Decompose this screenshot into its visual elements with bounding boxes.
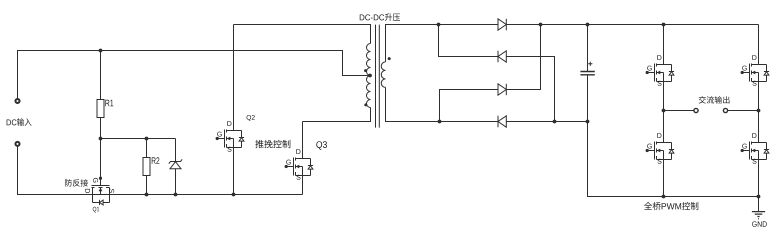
transistor bridge FET lower-right (741, 142, 770, 160)
node bridge left leg bottom junction (662, 195, 666, 199)
node bottom rail right corner (757, 195, 761, 199)
node Q2 source junction (232, 193, 236, 197)
wire bridge left leg lower source to rail (663, 160, 665, 197)
node AC1 / D1 anode junction (437, 23, 441, 27)
label R2 (152, 157, 156, 164)
label DC-DC升压 (360, 14, 365, 20)
node AC2 / secondary bottom junction (438, 120, 442, 124)
diode D4 (498, 116, 506, 127)
Q2 pin label D (227, 121, 231, 126)
ground lead (758, 197, 760, 212)
transistor bridge FET lower-left (646, 142, 675, 160)
wire AC2 up to D3 anode (440, 90, 499, 122)
label R1 (105, 100, 109, 107)
Q1 pin label G (93, 178, 98, 183)
label 防反接 (65, 179, 72, 186)
diode D1 (498, 19, 506, 30)
wire DC- down to bottom-right rail (588, 122, 759, 197)
wire bridge right leg lower drain (758, 111, 760, 143)
transformer T1 core (376, 25, 380, 128)
wire Q3 drain to primary bottom lead (303, 108, 371, 159)
wire DC- input lead and bottom-left rail (18, 146, 303, 194)
Q1 pin label D (85, 189, 90, 193)
bridge FET upper-right pin label D (752, 55, 756, 60)
resistor R1 (100, 51, 102, 100)
terminal DC input positive (15, 99, 19, 103)
Q3 pin label D (296, 149, 300, 154)
bridge FET lower-right pin label D (752, 133, 756, 138)
transformer polarity dot lower primary (364, 103, 367, 106)
transformer T1 primary winding (367, 44, 371, 108)
capacitor C1 plus sign (588, 62, 592, 66)
node AC output right junction (757, 109, 761, 113)
bridge FET lower-left pin label D (657, 133, 661, 138)
label Q2 (247, 115, 252, 121)
transformer polarity dot secondary (388, 57, 391, 60)
wire Q1 gate lead (100, 139, 102, 186)
terminal AC output left (694, 108, 698, 112)
wire top rail primary side and primary top lead (234, 25, 371, 44)
node capacitor top junction (586, 23, 590, 27)
Q3 pin label G (286, 160, 291, 165)
transformer T1 secondary winding (381, 62, 385, 88)
wire bridge right leg upper drain (758, 25, 760, 65)
terminal DC input negative (15, 142, 19, 146)
label 全桥PWM控制 (644, 202, 652, 210)
resistor R2 (146, 139, 148, 158)
wire secondary bottom lead to D4 cathode (386, 87, 499, 121)
transistor Q1 reverse-polarity protection (92, 177, 110, 206)
wire D3 cathode up to DC+ rail (506, 25, 540, 90)
bridge FET upper-left pin label S (657, 81, 661, 86)
node R2 top junction (145, 137, 149, 141)
label Q1 (93, 207, 97, 213)
Q2 pin label G (217, 132, 222, 137)
wire Q2 drain from top rail (233, 25, 235, 131)
transistor bridge FET upper-right (741, 64, 770, 82)
transistor bridge FET upper-left (646, 64, 675, 82)
bridge FET lower-left pin label G (647, 144, 652, 149)
wire AC1 down to D2 cathode (439, 25, 499, 57)
transistor Q2 (216, 130, 245, 148)
node AC output left junction (662, 109, 666, 113)
label 推挽控制 (255, 140, 263, 148)
wire DC+ rail from D1 cathode to top-right corner (506, 24, 758, 26)
bridge FET lower-right pin label S (752, 159, 756, 164)
bridge FET upper-left pin label G (647, 66, 652, 71)
bridge FET upper-right pin label G (742, 66, 747, 71)
wire DC+ input lead, feeder to transformer center tap (18, 51, 371, 99)
wire D2 anode down to DC- node (506, 57, 554, 122)
transformer polarity dot upper primary (364, 69, 367, 72)
diode D2 (498, 51, 506, 62)
bridge FET upper-left pin label D (657, 55, 661, 60)
node R1 top junction (99, 49, 103, 53)
bridge FET upper-right pin label S (752, 81, 756, 86)
wire Q3 source lead (302, 176, 304, 195)
wire Q2 source to bottom rail (233, 148, 235, 195)
node DC- at D2/D4 anodes (553, 120, 557, 124)
wire bridge left leg lower drain (663, 111, 665, 143)
label DC输入 (7, 119, 11, 125)
node primary center tap junction (368, 74, 372, 78)
label GND (752, 221, 757, 226)
Q2 pin label S (227, 147, 231, 152)
wire AC output left (664, 110, 694, 112)
wire bridge left leg upper source to AC node (663, 82, 665, 111)
capacitor C1 bus filter (587, 25, 589, 72)
ground symbol (752, 212, 765, 219)
transistor Q3 (285, 158, 314, 176)
node capacitor bottom junction (586, 120, 590, 124)
wire gate branch to R2 and zener (101, 138, 176, 140)
node zener bottom junction (174, 193, 178, 197)
label Q3 (316, 141, 322, 150)
wire D4 anode to capacitor bottom (506, 121, 587, 123)
wire AC output right (728, 110, 759, 112)
node R2 bottom junction (145, 193, 149, 197)
Q3 pin label S (296, 175, 300, 180)
Q1 pin label S (109, 189, 114, 193)
terminal AC output right (723, 108, 727, 112)
wire bridge right leg lower source to rail (758, 160, 760, 197)
node bridge left leg top junction (662, 23, 666, 27)
bridge FET lower-right pin label G (742, 144, 747, 149)
diode D3 (498, 84, 506, 95)
wire bridge right leg upper source to AC node (758, 82, 760, 111)
label 交流输出 (699, 96, 706, 103)
node D1/D3 cathode junction on DC+ rail (539, 23, 543, 27)
wire secondary top lead to D1 anode (386, 25, 499, 62)
zener diode gate clamp (175, 139, 177, 162)
bridge FET lower-left pin label S (657, 159, 661, 164)
node R1 bottom / gate branch junction (99, 137, 103, 141)
wire bridge left leg upper drain (663, 25, 665, 65)
